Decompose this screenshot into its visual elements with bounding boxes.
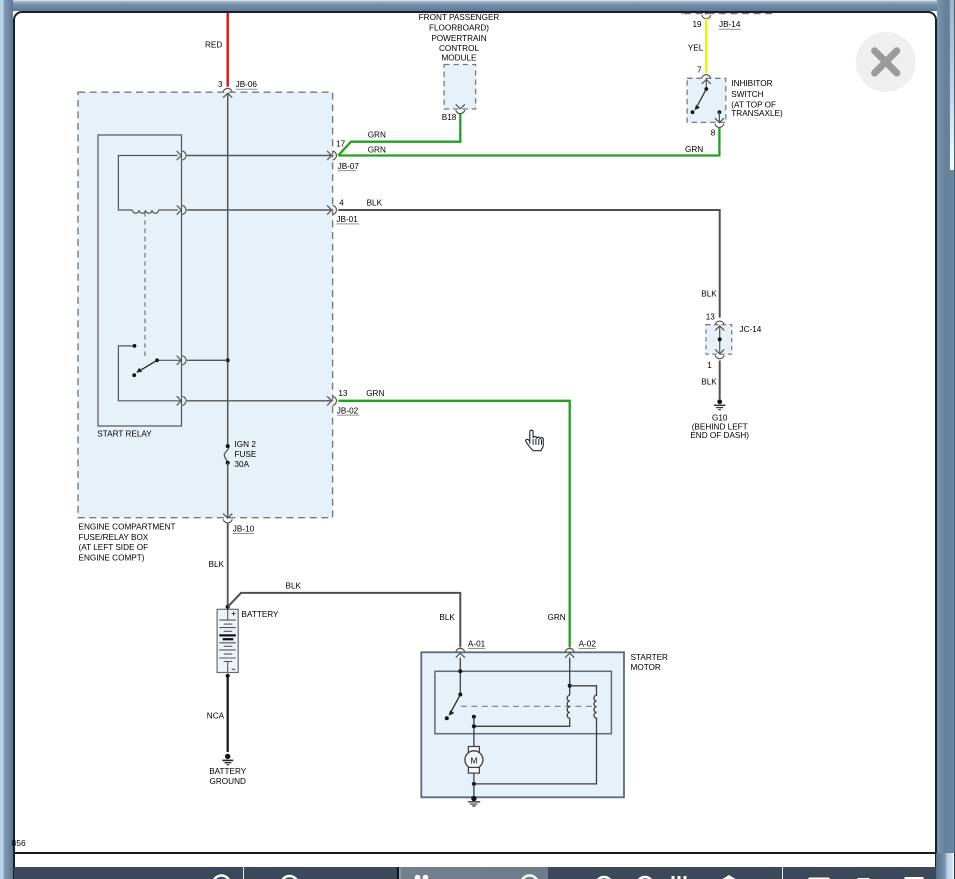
junction connector JC-14 box [706, 325, 732, 355]
wire GRN: JB-02 to starter A-02 [338, 401, 569, 648]
JC-14 internal wire + dot [719, 326, 721, 354]
node JB-14 connector pin 19 [702, 9, 711, 18]
node JC-14 entry connector [715, 321, 724, 330]
ground: battery ground [225, 754, 230, 759]
mouse cursor (hand) [526, 430, 544, 451]
node JB-07 connector pin 17 [327, 151, 336, 160]
wire NCA: battery to ground [227, 676, 229, 752]
starter A-01 internal wire [459, 658, 461, 695]
wire BLK: battery to starter A-01 [228, 593, 461, 648]
junction box bottom edge (cut off at top) [684, 13, 772, 15]
page bottom rule [14, 852, 936, 854]
toolbar right blue gap [936, 853, 954, 879]
wire BLK: JB-01 to JC-14 [338, 210, 719, 318]
node JC-14 exit connector [715, 349, 724, 358]
pull-in winding (left coil) [474, 695, 570, 726]
node A-02 connector [565, 648, 574, 657]
starter switch arm [452, 695, 461, 712]
wire row3 stub to main line [187, 359, 228, 361]
relay pin connector row 2 (to JB-01) [177, 205, 186, 214]
starter A-02 internal wire [569, 658, 571, 696]
inhibitor lower-left contact [691, 110, 695, 114]
inhibitor pin 8 contact + stub [718, 110, 722, 114]
wire YEL: JB-14 to inhibitor pin 7 [705, 19, 707, 73]
relay switch pivot contact on row 3 [157, 359, 181, 361]
wire row2 to JB-01 [187, 209, 332, 211]
wire: main vertical feed inside box [227, 93, 229, 444]
node JB-01 connector pin 4 [327, 205, 336, 214]
starter motor contact + feed [472, 715, 476, 719]
wire: JB-10 to battery [227, 524, 229, 607]
wire GRN: JB-07 to inhibitor switch pin 8 [338, 127, 719, 156]
battery symbol [217, 609, 238, 672]
relay switch arm with arrowhead [140, 360, 158, 371]
close button [856, 32, 916, 92]
inhibitor switch box [687, 78, 726, 122]
node A-01 connector [456, 648, 465, 657]
fuse IGN 2 30A [224, 446, 228, 462]
relay pin connector row 4 (to JB-02) [177, 396, 186, 405]
wire BLK: JC-14 to G10 [719, 361, 721, 400]
starter solenoid inner box [435, 671, 612, 733]
page number [12, 838, 26, 848]
start relay outline [98, 135, 182, 426]
powertrain control module box [444, 65, 476, 110]
relay mechanical linkage (dashed) [144, 212, 146, 357]
motor to case ground wire [473, 773, 475, 797]
ground: starter case [471, 796, 476, 801]
wire row4 to JB-02 [187, 400, 332, 402]
wire: RED battery feed from top [226, 11, 228, 87]
node JB-10 connector [223, 514, 232, 523]
toolbar [14, 867, 937, 879]
hold-in winding (right coil) [474, 686, 597, 784]
frame: right band [937, 0, 955, 879]
frame: right scroll thumb [950, 0, 954, 170]
inhibitor internal: pin7 stub + contact [705, 80, 707, 90]
node JB-02 connector pin 13 [327, 396, 336, 405]
wire row1 to JB-07 [187, 155, 332, 157]
relay switch lower contact [132, 373, 136, 377]
node inhibitor pin 7 connector [702, 75, 711, 84]
inhibitor switch arm [697, 89, 706, 106]
wire fuse to JB-10 [227, 463, 229, 518]
junction dot battery + [226, 605, 230, 609]
ground G10 [717, 399, 722, 404]
junction dot row3/main [226, 358, 230, 362]
relay switch upper contact + L wire to row 4 [118, 346, 181, 401]
relay pin connector row 3 (switch common) [177, 356, 186, 365]
wire GRN: JB-07 branch to PCM B18 [338, 114, 460, 156]
engine compartment fuse/relay box [78, 92, 333, 518]
node inhibitor pin 8 connector [715, 118, 724, 127]
frame: top band [0, 0, 955, 11]
frame: left band [0, 0, 13, 879]
starter motor box [421, 652, 624, 797]
relay pin connector row 1 (to JB-07) [177, 151, 186, 160]
node B18 connector [456, 104, 465, 113]
motor M [468, 747, 479, 753]
starter linkage (dashed) [461, 705, 597, 707]
junction dot battery - [226, 674, 230, 678]
start relay coil loop + coil winding [118, 156, 177, 211]
node JB-06 connector pin 3 [223, 88, 232, 97]
